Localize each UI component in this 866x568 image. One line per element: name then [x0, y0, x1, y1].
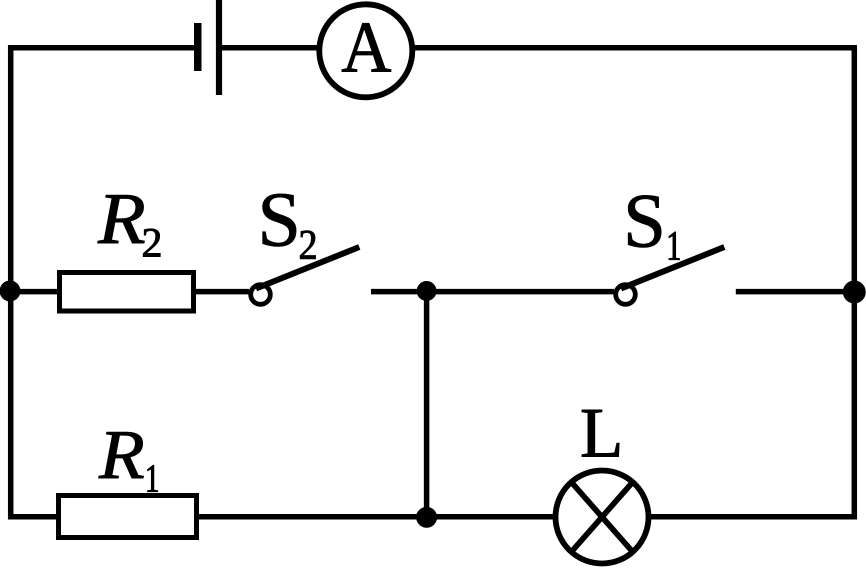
switch S2 blade — [256, 247, 359, 289]
wire top between battery and ammeter — [222, 45, 318, 51]
switch S1 blade — [621, 247, 724, 289]
wire middle row: R2 to switch S2 circle — [195, 289, 249, 295]
node center-top junction dot — [417, 282, 436, 301]
wire right vertical — [852, 45, 858, 520]
letter R of R2 label — [98, 195, 145, 243]
letter A of ammeter — [342, 23, 391, 71]
ammeter A circle — [319, 4, 412, 97]
switch S2 pivot circle — [251, 285, 271, 305]
lamp L cross diagonal 2 — [572, 483, 632, 551]
node center-bottom junction dot — [417, 507, 437, 527]
wire bottom: R1 to lamp — [197, 514, 554, 520]
lamp L cross diagonal 1 — [572, 483, 632, 551]
letter S of S2 label — [263, 194, 296, 246]
wire bottom: left corner to R1 — [8, 514, 58, 520]
battery cell: short thick plate (negative) — [194, 23, 202, 71]
subscript 1 of R1 label — [148, 465, 158, 491]
resistor R2 body — [60, 273, 194, 312]
wire middle row: after S1 gap to right node — [736, 289, 857, 295]
letter S of S1 label — [628, 196, 661, 248]
wire middle row: left node to R2 — [8, 289, 58, 295]
subscript 2 of R2 label — [143, 229, 160, 257]
wire middle row: after S2 gap to center node — [371, 289, 427, 295]
wire top between ammeter and right corner — [415, 45, 858, 51]
wire top-left horizontal (battery to left corner) — [8, 45, 195, 51]
subscript 1 of S1 label — [669, 232, 680, 260]
wire left vertical — [8, 45, 14, 520]
resistor R1 body — [59, 496, 197, 538]
letter R of R1 label — [99, 432, 144, 478]
wire center vertical (node to node) — [424, 292, 430, 517]
node right junction dot — [843, 281, 865, 303]
lamp L circle — [556, 471, 649, 564]
wire bottom: lamp to right corner — [651, 514, 858, 520]
battery cell: long thin plate (positive) — [216, 0, 222, 95]
letter L of lamp label — [582, 410, 619, 457]
wire middle row: center node to switch S1 circle — [427, 289, 614, 295]
node left junction dot — [0, 281, 20, 301]
switch S1 pivot circle — [616, 285, 636, 305]
subscript 2 of S2 label — [300, 231, 315, 259]
